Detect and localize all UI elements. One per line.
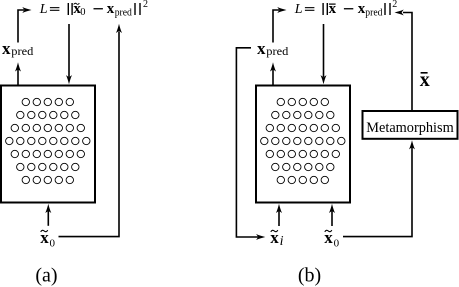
svg-text:0: 0 xyxy=(334,238,340,250)
svg-text:0: 0 xyxy=(80,7,85,18)
svg-text:L: L xyxy=(294,2,303,17)
svg-text:2: 2 xyxy=(143,0,148,10)
label x~_0 (a) xyxy=(40,228,55,250)
label x^bar xyxy=(420,69,430,91)
wire: return path x~_0 up to formula (a) xyxy=(59,24,123,237)
caption (b) xyxy=(298,265,321,287)
Metamorphism box xyxy=(363,111,458,139)
svg-text:L: L xyxy=(39,2,48,17)
wire: arrow from formula down into box B xyxy=(321,24,327,84)
wire: arrow from formula down into box A xyxy=(66,24,72,84)
wire: feedback from x_pred left and down to x~_i xyxy=(236,48,265,240)
wire: Metamorphism up then left into formula (b) xyxy=(395,10,413,111)
svg-text:0: 0 xyxy=(50,238,56,250)
wire: arrow x~_0 into box B bottom xyxy=(329,204,335,226)
svg-text:pred: pred xyxy=(266,44,288,58)
network box A xyxy=(1,86,95,203)
svg-text:x: x xyxy=(257,39,266,58)
label x~_0 (b) xyxy=(324,228,339,250)
label x~_i xyxy=(270,228,283,249)
wire: arrow box B top to x_pred label xyxy=(270,62,276,84)
svg-text:x: x xyxy=(2,39,11,58)
svg-text:Metamorphism: Metamorphism xyxy=(366,120,454,136)
svg-text:x: x xyxy=(107,1,115,17)
svg-text:pred: pred xyxy=(115,8,132,19)
wire: x~_0 right and up into Metamorphism box xyxy=(343,140,415,236)
wire: elbow from x_pred up to L (b) xyxy=(273,7,287,43)
svg-text:(a): (a) xyxy=(35,265,57,287)
neuron circles A xyxy=(6,98,90,183)
svg-text:(b): (b) xyxy=(298,265,321,287)
wire: arrow x~_i into box B bottom xyxy=(276,204,282,226)
neuron circles B xyxy=(261,98,345,183)
label x_pred (b) xyxy=(257,39,288,58)
svg-text:pred: pred xyxy=(365,8,382,19)
svg-text:i: i xyxy=(280,234,284,249)
svg-text:x: x xyxy=(329,1,337,17)
network box B xyxy=(256,86,350,203)
wire: elbow from x_pred up to L (a) xyxy=(18,7,32,43)
label x_pred (a) xyxy=(2,39,33,58)
loss formula (b): L = ||x^bar - x_pred||^2 xyxy=(294,0,398,19)
caption (a) xyxy=(35,265,57,287)
loss formula (a): L = ||x~_0 - x_pred||^2 xyxy=(39,0,148,19)
wire: arrow box A top to x_pred label xyxy=(15,62,21,84)
svg-text:2: 2 xyxy=(392,0,397,10)
wire: arrow x~_0 into box A bottom xyxy=(45,204,51,226)
svg-text:pred: pred xyxy=(11,44,33,58)
